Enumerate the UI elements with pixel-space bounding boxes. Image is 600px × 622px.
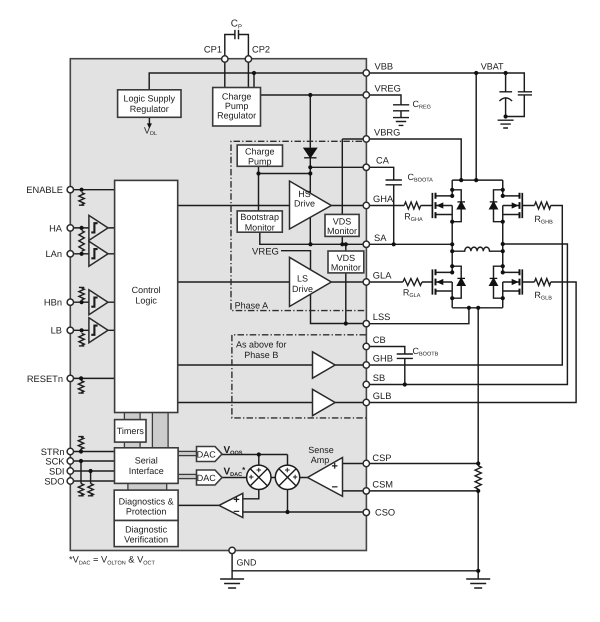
svg-text:CREG: CREG xyxy=(413,99,431,111)
svg-text:STRn: STRn xyxy=(41,447,65,457)
svg-text:Interface: Interface xyxy=(129,466,164,476)
svg-text:Control: Control xyxy=(132,285,161,295)
svg-text:−: − xyxy=(233,506,239,518)
svg-text:HS: HS xyxy=(298,189,311,199)
svg-text:Pump: Pump xyxy=(248,156,272,166)
svg-text:SDO: SDO xyxy=(44,477,64,487)
svg-text:CB: CB xyxy=(373,335,386,345)
svg-text:Serial: Serial xyxy=(135,456,158,466)
svg-text:GLA: GLA xyxy=(373,271,392,281)
svg-text:GHB: GHB xyxy=(373,354,393,364)
svg-text:Bootstrap: Bootstrap xyxy=(240,212,279,222)
svg-text:+: + xyxy=(332,461,338,473)
svg-text:Timers: Timers xyxy=(117,426,145,436)
svg-text:CBOOTA: CBOOTA xyxy=(408,172,434,184)
svg-text:LSS: LSS xyxy=(373,312,391,322)
svg-text:Drive: Drive xyxy=(292,284,313,294)
svg-text:As above for: As above for xyxy=(236,340,287,350)
svg-text:SCK: SCK xyxy=(45,457,65,467)
svg-text:Verification: Verification xyxy=(124,535,168,545)
svg-text:CP1: CP1 xyxy=(204,45,222,55)
svg-text:Protection: Protection xyxy=(126,507,167,517)
svg-text:+: + xyxy=(292,472,297,482)
svg-text:Sense: Sense xyxy=(308,445,334,455)
svg-text:Charge: Charge xyxy=(245,147,275,157)
svg-text:DAC: DAC xyxy=(197,449,217,459)
svg-text:HBn: HBn xyxy=(44,298,62,308)
svg-text:RGLB: RGLB xyxy=(534,290,552,302)
svg-text:RGLA: RGLA xyxy=(403,288,421,300)
svg-text:GND: GND xyxy=(237,558,258,568)
svg-text:RESETn: RESETn xyxy=(27,374,63,384)
svg-text:VDS: VDS xyxy=(333,217,352,227)
svg-text:Charge: Charge xyxy=(222,92,252,102)
svg-text:+: + xyxy=(285,465,290,475)
svg-text:LS: LS xyxy=(297,274,308,284)
svg-text:DAC: DAC xyxy=(197,473,217,483)
svg-text:VBRG: VBRG xyxy=(374,128,400,138)
svg-text:CBOOTB: CBOOTB xyxy=(413,346,439,358)
svg-text:+: + xyxy=(233,494,239,506)
svg-text:SB: SB xyxy=(373,373,385,383)
svg-text:−: − xyxy=(332,482,338,494)
svg-text:HA: HA xyxy=(49,223,63,233)
svg-text:Logic Supply: Logic Supply xyxy=(124,94,176,104)
svg-text:CSO: CSO xyxy=(375,508,395,518)
svg-text:VREG: VREG xyxy=(375,84,401,94)
svg-text:Phase B: Phase B xyxy=(244,350,278,360)
svg-text:Diagnostics &: Diagnostics & xyxy=(119,497,174,507)
svg-text:RGHB: RGHB xyxy=(534,214,553,226)
svg-text:LB: LB xyxy=(51,326,62,336)
svg-text:Pump: Pump xyxy=(225,101,249,111)
svg-text:VBAT: VBAT xyxy=(481,62,504,72)
svg-text:Regulator: Regulator xyxy=(130,104,169,114)
svg-text:Diagnostic: Diagnostic xyxy=(125,525,168,535)
svg-text:+: + xyxy=(256,465,261,475)
svg-text:SA: SA xyxy=(374,233,387,243)
svg-text:GLB: GLB xyxy=(373,391,392,401)
svg-text:SDI: SDI xyxy=(49,467,65,477)
svg-text:Monitor: Monitor xyxy=(331,263,361,273)
svg-text:CP2: CP2 xyxy=(252,45,270,55)
svg-text:CSM: CSM xyxy=(372,480,393,490)
svg-text:CA: CA xyxy=(376,156,390,166)
svg-text:Phase A: Phase A xyxy=(235,301,269,311)
svg-text:Drive: Drive xyxy=(294,199,315,209)
svg-text:Monitor: Monitor xyxy=(327,226,357,236)
svg-text:LAn: LAn xyxy=(45,249,62,259)
svg-text:VBB: VBB xyxy=(375,62,394,72)
svg-text:Logic: Logic xyxy=(135,296,157,306)
svg-text:+: + xyxy=(248,472,253,482)
svg-text:Monitor: Monitor xyxy=(245,222,275,232)
svg-text:CP: CP xyxy=(231,19,242,31)
svg-text:Regulator: Regulator xyxy=(217,111,256,121)
svg-text:*VDAC = VOLTON & VOCT: *VDAC = VOLTON & VOCT xyxy=(69,555,156,567)
svg-text:CSP: CSP xyxy=(372,453,391,463)
svg-text:ENABLE: ENABLE xyxy=(26,185,63,195)
svg-text:GHA: GHA xyxy=(373,194,394,204)
svg-text:Amp: Amp xyxy=(311,455,330,465)
svg-text:VDS: VDS xyxy=(337,253,356,263)
svg-text:RGHA: RGHA xyxy=(404,212,423,224)
svg-text:VREG: VREG xyxy=(252,247,279,258)
